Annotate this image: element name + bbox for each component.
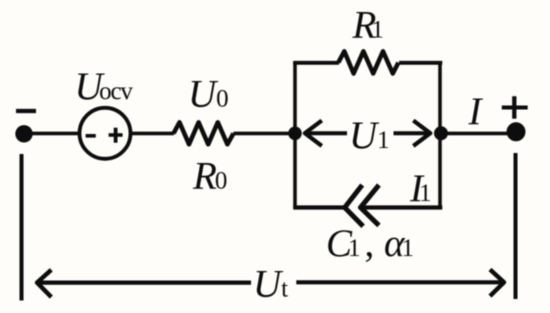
svg-text:I: I	[468, 90, 484, 133]
svg-text:C1, α1: C1, α1	[326, 222, 414, 265]
